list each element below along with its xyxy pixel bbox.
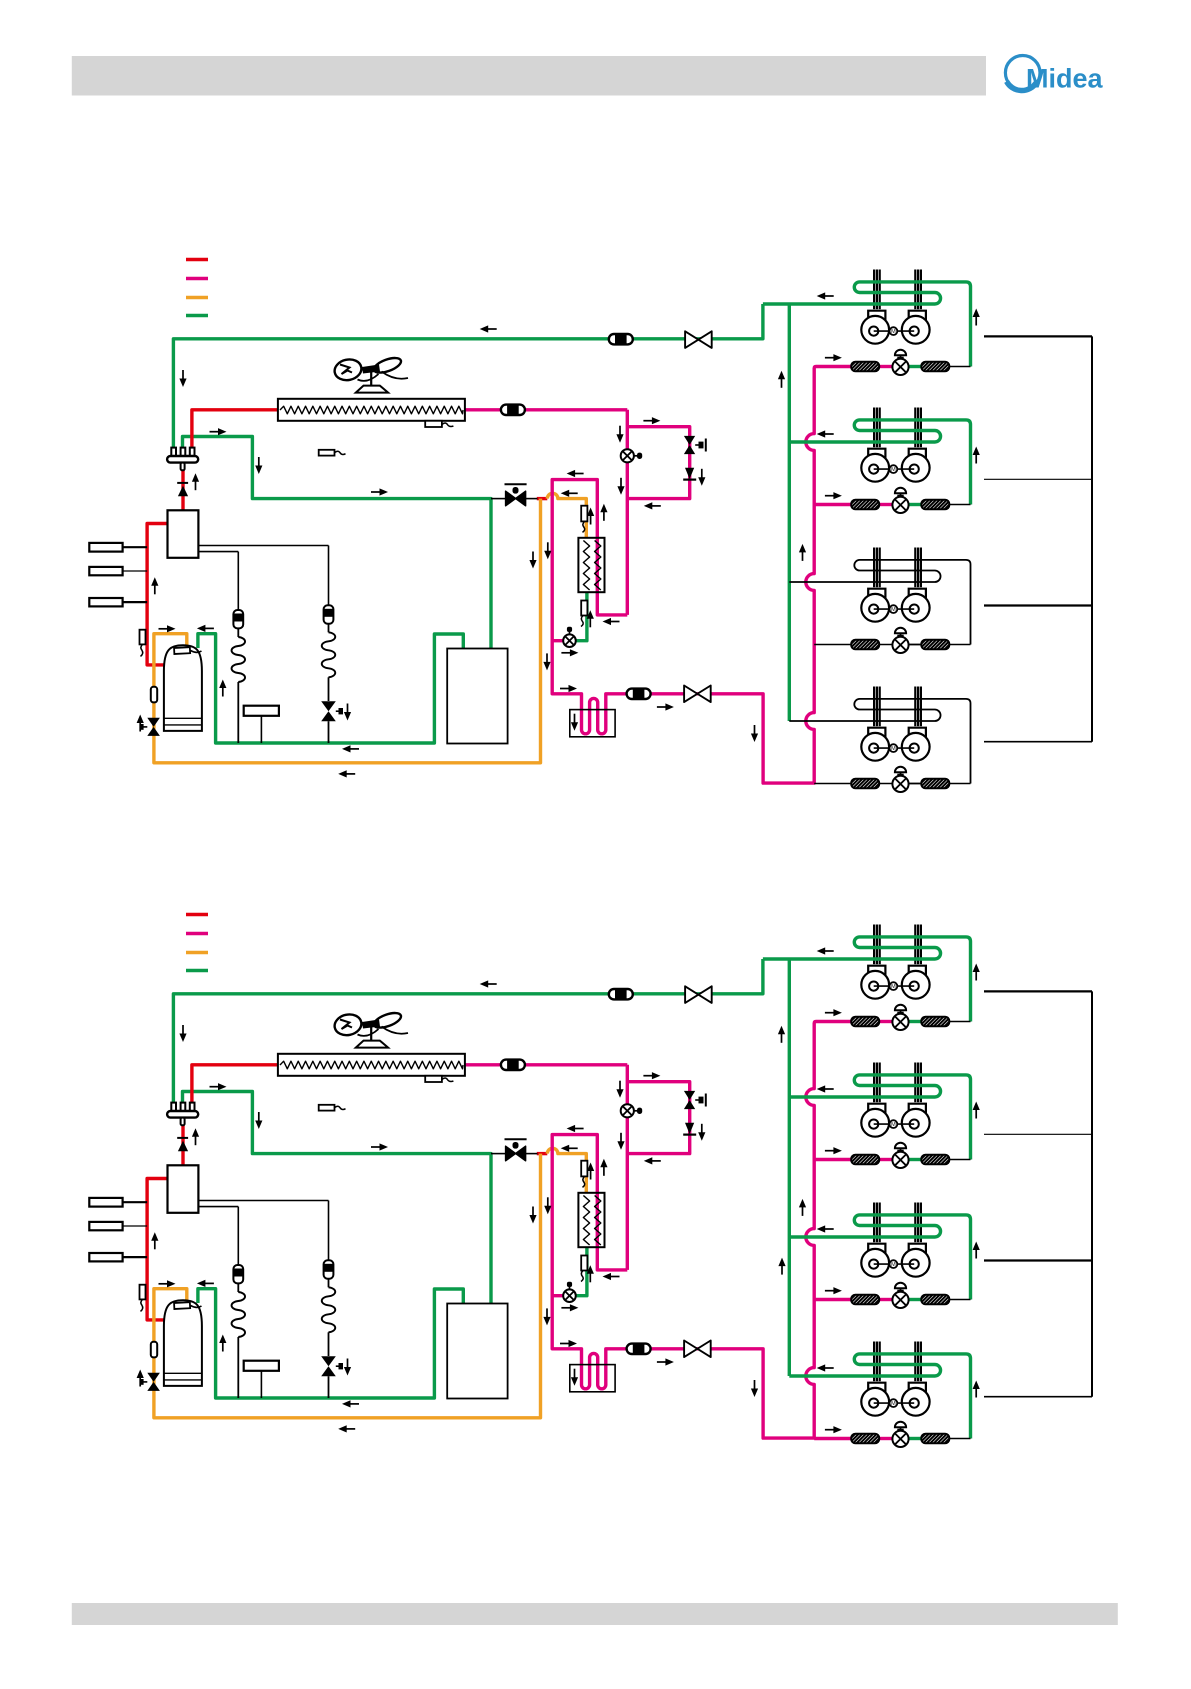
svg-text:M: M bbox=[891, 467, 896, 473]
svg-text:Midea: Midea bbox=[1026, 64, 1104, 94]
svg-text:M: M bbox=[891, 1122, 896, 1128]
svg-text:M: M bbox=[891, 1401, 896, 1407]
svg-text:M: M bbox=[891, 329, 896, 335]
svg-text:M: M bbox=[891, 1262, 896, 1268]
svg-text:M: M bbox=[891, 607, 896, 613]
svg-text:M: M bbox=[891, 746, 896, 752]
svg-text:M: M bbox=[891, 984, 896, 990]
